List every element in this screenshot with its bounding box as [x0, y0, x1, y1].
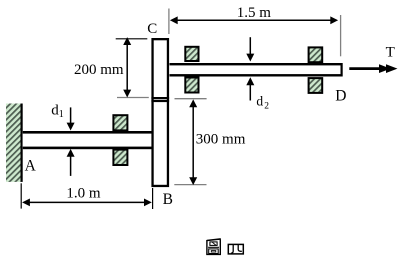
svg-text:B: B	[163, 191, 173, 208]
svg-text:D: D	[335, 88, 346, 105]
svg-text:C: C	[147, 21, 157, 37]
svg-text:1.5 m: 1.5 m	[237, 5, 271, 21]
svg-text:A: A	[25, 158, 37, 175]
svg-text:2: 2	[264, 102, 269, 112]
svg-text:300 mm: 300 mm	[196, 131, 246, 147]
svg-text:200 mm: 200 mm	[74, 62, 124, 78]
svg-text:1.0 m: 1.0 m	[66, 185, 101, 201]
svg-text:1: 1	[59, 109, 64, 120]
svg-text:T: T	[386, 44, 395, 60]
svg-text:d: d	[256, 94, 263, 109]
